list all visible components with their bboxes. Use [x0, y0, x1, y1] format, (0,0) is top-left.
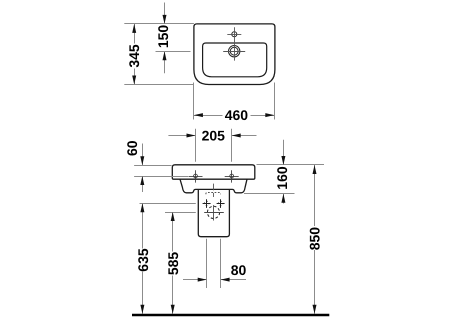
- 60 dimension line lower segment: [142, 176, 144, 192]
- drain crosshair vertical: [213, 205, 215, 220]
- svg-text:460: 460: [225, 107, 249, 123]
- arrow 585 down: [171, 305, 175, 314]
- extension line top edge (left of basin): [124, 23, 194, 25]
- 635 dimension line lower segment: [142, 272, 144, 314]
- 160 dimension line upper segment: [283, 140, 285, 165]
- dimension line 345 lower segment: [134, 69, 136, 85]
- dimension line 460 left segment: [194, 115, 223, 117]
- basin outer outline (top view): [194, 24, 275, 85]
- arrow 850 down: [313, 305, 317, 314]
- arrow 80 right-pointing: [198, 278, 207, 282]
- pedestal outline (front view): [198, 189, 229, 236]
- 205 dimension line left segment: [168, 135, 195, 137]
- dimension line 345 upper segment: [134, 24, 136, 44]
- arrow 60 up: [140, 176, 144, 185]
- svg-text:205: 205: [202, 127, 226, 143]
- arrow 850 up: [313, 165, 317, 174]
- drain hole dashed circle (pedestal): [207, 206, 219, 218]
- arrow 460 right: [265, 113, 274, 117]
- basin fixing hole right crosshair (front): [225, 176, 239, 178]
- svg-text:160: 160: [274, 166, 290, 190]
- svg-text:850: 850: [306, 227, 322, 251]
- centerline segment lower: [213, 193, 215, 197]
- svg-text:150: 150: [155, 25, 171, 49]
- svg-text:585: 585: [165, 252, 181, 276]
- arrow 150 up (at hole level): [163, 51, 167, 60]
- extension tick at tap hole level: [156, 51, 191, 53]
- arrow 345 up: [132, 24, 136, 33]
- tap hole crosshair horizontal: [223, 51, 245, 53]
- centerline above pedestal: [213, 184, 215, 191]
- pedestal fixing hole right crosshair: [217, 203, 225, 205]
- svg-text:60: 60: [124, 140, 140, 156]
- 80 dimension line left segment: [183, 279, 207, 281]
- extension line 460 left: [193, 83, 195, 120]
- small circle crosshair horizontal: [227, 34, 241, 36]
- 60 extension line upper (rim top): [134, 165, 172, 167]
- arrow 205 right-pointing: [187, 134, 196, 138]
- tap hole inner circle (top view): [230, 47, 238, 55]
- 205 extension line left: [195, 129, 197, 162]
- 850 dimension line upper segment: [314, 165, 316, 226]
- arrow 205 left-pointing: [232, 134, 241, 138]
- arrow 160 down: [281, 156, 285, 165]
- 635 dimension line upper segment: [142, 203, 144, 248]
- 635 extension line (pedestal holes level): [140, 203, 196, 205]
- svg-text:635: 635: [135, 248, 151, 272]
- arrow 160 up: [281, 194, 285, 203]
- 585 extension line (drain level): [165, 212, 196, 214]
- faucet hole small circle (top view): [232, 32, 237, 37]
- basin fixing hole left crosshair (front): [189, 176, 203, 178]
- basin inner bowl outline (top view): [203, 43, 267, 77]
- arrow 635 up: [140, 203, 144, 212]
- extension line 460 right: [274, 83, 276, 120]
- arrow 460 left: [194, 113, 203, 117]
- 585 dimension line lower segment: [172, 276, 174, 314]
- basin fixing hole left circle: [194, 174, 198, 178]
- 205 dimension line right segment: [232, 135, 257, 137]
- basin fixing hole right circle: [230, 174, 234, 178]
- arrow 345 down: [132, 76, 136, 85]
- svg-text:345: 345: [126, 44, 142, 68]
- pedestal fixing hole right dashed circle: [218, 201, 222, 205]
- 205 extension line right: [231, 129, 233, 162]
- floor line: [132, 314, 329, 317]
- 850 dimension line lower segment: [314, 250, 316, 314]
- 160 extension line top (rim top right): [257, 164, 325, 166]
- dashed drain recess arch: [206, 192, 221, 194]
- 60 extension line lower (hole level): [134, 176, 188, 178]
- vertical crosshair through both circles: [234, 27, 236, 60]
- svg-text:80: 80: [231, 262, 247, 278]
- 80 dimension line right segment: [221, 279, 246, 281]
- arrow 585 up: [171, 212, 175, 221]
- pedestal fixing hole left crosshair: [203, 203, 211, 205]
- 585 dimension line upper segment: [172, 212, 174, 252]
- 160 extension line bottom (underside): [244, 193, 295, 195]
- arrow 80 left-pointing: [221, 278, 230, 282]
- 80 extension line left (from left pedestal hole): [206, 239, 208, 288]
- pedestal fixing hole left dashed circle: [204, 201, 208, 205]
- arrow 150 down (at top edge): [163, 15, 167, 24]
- dimension line 150 lower segment: [164, 51, 166, 73]
- arrow 635 down: [140, 305, 144, 314]
- dimension line 460 right segment: [251, 115, 275, 117]
- tap hole outer circle (top view): [229, 46, 240, 57]
- arrow 60 down: [140, 156, 144, 165]
- 80 extension line right (from right pedestal hole): [220, 239, 222, 288]
- extension line basin rear bottom: [124, 84, 193, 86]
- 160 dimension line lower segment: [283, 194, 285, 204]
- dimension line 150 upper segment: [164, 3, 166, 24]
- drain crosshair horizontal: [204, 212, 224, 214]
- 60 dimension line upper segment: [142, 144, 144, 166]
- basin rim block outline (front view): [172, 165, 255, 179]
- basin underside profile (front view): [180, 179, 247, 193]
